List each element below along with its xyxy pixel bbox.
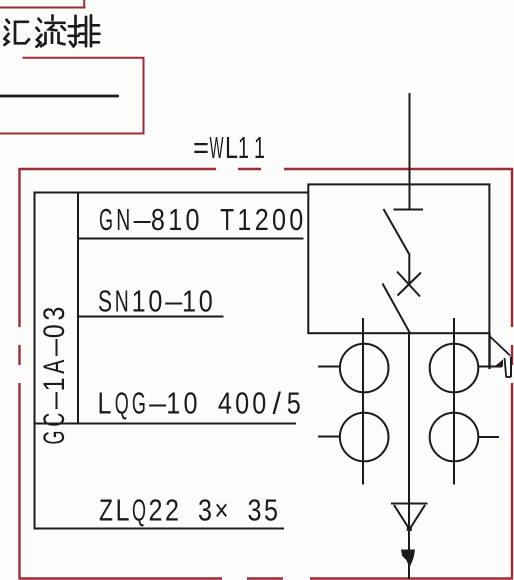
- equipment frame (black, left schedule): [34, 192, 309, 530]
- cubicle outline (red dashed rectangle): [19, 168, 514, 579]
- svg-text:=WL11: =WL11: [193, 131, 265, 165]
- disconnect switch QS (GN-810): [384, 209, 424, 254]
- bottom line of frame: [34, 528, 284, 530]
- CT1 secondary tick: [318, 366, 340, 368]
- CT branch wire (right): [453, 318, 455, 485]
- wire under SN10-10: [78, 316, 224, 318]
- cursor barb (filled): [495, 360, 504, 367]
- busbar (thick black bus line): [0, 95, 119, 98]
- bottom edge: [19, 577, 223, 579]
- cable termination (triangle): [391, 504, 428, 529]
- switchgear box: [308, 184, 489, 333]
- triangle apex node: [407, 526, 412, 531]
- current transformer CT2: [340, 413, 389, 462]
- current transformer CT3: [430, 344, 479, 393]
- wire between QS and QF: [408, 253, 410, 284]
- feeder wire from busbar: [409, 93, 411, 210]
- load arrow (filled): [401, 550, 415, 568]
- CT branch wire (left): [362, 318, 364, 485]
- busbar label 汇流排 (stroke glyphs): [5, 15, 100, 47]
- current transformer CT4: [430, 413, 479, 462]
- left edge: [18, 168, 20, 327]
- wire under LQG-10: [35, 423, 296, 425]
- wire under GN-810: [78, 238, 304, 240]
- red outline of busbar cell (open at left): [0, 58, 144, 134]
- CT4 secondary tick: [478, 436, 499, 438]
- CT2 secondary tick: [318, 436, 340, 438]
- current transformer CT1: [340, 344, 389, 393]
- right edge: [511, 168, 513, 327]
- mouse cursor artefact at box corner: [490, 333, 512, 377]
- 汇: [7, 20, 10, 23]
- svg-text:SN10—10: SN10—10: [98, 285, 213, 319]
- CT3 secondary tick: [478, 366, 502, 368]
- circuit breaker QF (SN10-10): [383, 272, 422, 333]
- outgoing feeder wire: [408, 332, 410, 579]
- red frame of upper cell (cropped at top): [0, 0, 86, 9]
- 排: [74, 16, 77, 44]
- 流: [39, 19, 42, 22]
- top edge: [19, 168, 217, 170]
